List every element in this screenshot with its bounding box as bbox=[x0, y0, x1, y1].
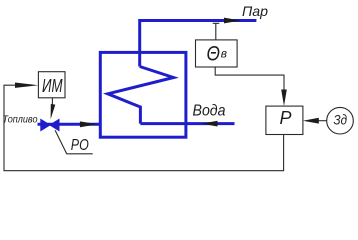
svg-text:Р: Р bbox=[280, 108, 292, 128]
arrow into P right bbox=[303, 118, 319, 124]
label Zd bbox=[334, 112, 348, 128]
svg-text:Θ: Θ bbox=[207, 43, 221, 66]
RO leader line bbox=[55, 130, 93, 154]
boiler drum bbox=[100, 52, 186, 137]
label Voda water bbox=[193, 103, 226, 120]
steam flow arrow bbox=[224, 18, 241, 24]
label Par steam bbox=[242, 3, 268, 19]
arrow into IM left bbox=[15, 83, 38, 88]
setpoint wire bbox=[318, 120, 327, 122]
heating coil zigzag bbox=[108, 67, 174, 124]
fuel line wire bbox=[38, 123, 101, 126]
sensor tap tee bbox=[213, 23, 220, 40]
sensor to regulator wire bbox=[215, 67, 284, 92]
arrow into P top bbox=[281, 90, 287, 107]
steam pipe wire bbox=[140, 21, 257, 67]
block P regulator bbox=[266, 106, 303, 134]
setpoint Zd circle bbox=[327, 107, 354, 134]
svg-text:РО: РО bbox=[71, 137, 89, 154]
water flow arrow bbox=[202, 121, 218, 127]
feedback wire P to IM bbox=[4, 85, 284, 171]
svg-text:Зд: Зд bbox=[334, 112, 348, 128]
label P bbox=[280, 108, 292, 128]
svg-text:в: в bbox=[221, 47, 227, 61]
block IM actuator bbox=[38, 72, 65, 98]
block Theta-v sensor bbox=[196, 40, 238, 67]
label Toplivo fuel bbox=[3, 113, 38, 125]
label IM bbox=[42, 76, 63, 96]
label v subscript bbox=[221, 47, 227, 61]
svg-text:ИМ: ИМ bbox=[42, 76, 63, 96]
svg-text:Вода: Вода bbox=[193, 103, 226, 120]
water line wire bbox=[140, 122, 234, 125]
valve RO bowtie bbox=[41, 119, 59, 130]
label Theta bbox=[207, 43, 221, 66]
svg-text:Пар: Пар bbox=[242, 3, 268, 19]
IM to valve wire bbox=[51, 98, 53, 108]
fuel flow arrow bbox=[80, 121, 98, 127]
svg-text:Топливо: Топливо bbox=[3, 113, 38, 125]
label RO bbox=[71, 137, 89, 154]
arrow into valve top bbox=[51, 104, 56, 119]
